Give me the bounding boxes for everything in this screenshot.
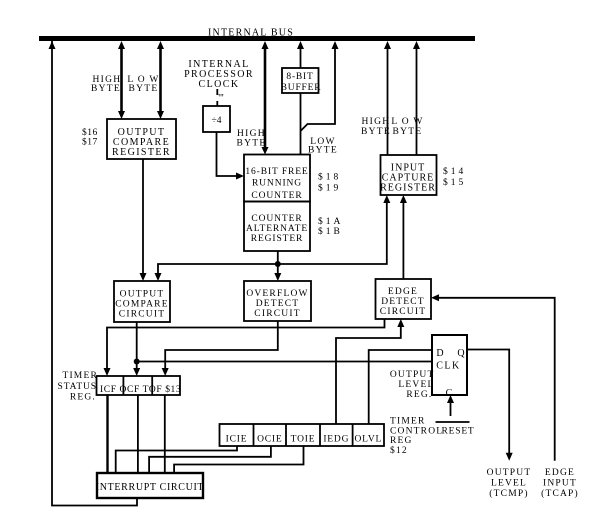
svg-text:REG.: REG. xyxy=(70,393,96,403)
wire: clock to divide-by-4 xyxy=(216,89,218,95)
wire: divide-by-4 to counter xyxy=(217,132,241,176)
svg-text:BYTE: BYTE xyxy=(361,127,391,137)
svg-text:BUFFER: BUFFER xyxy=(281,83,322,93)
svg-text:LEVEL: LEVEL xyxy=(398,380,434,390)
timer status register box xyxy=(97,376,181,395)
svg-text:OVERFLOW: OVERFLOW xyxy=(246,289,308,299)
svg-text:REG: REG xyxy=(390,436,413,446)
svg-text:CIRCUIT: CIRCUIT xyxy=(254,309,300,319)
svg-text:$17: $17 xyxy=(82,137,98,148)
svg-text:DETECT: DETECT xyxy=(256,299,300,309)
svg-text:OUTPUT: OUTPUT xyxy=(390,370,435,380)
svg-text:CIRCUIT: CIRCUIT xyxy=(119,310,165,320)
svg-text:COUNTER: COUNTER xyxy=(251,191,302,201)
svg-text:REGISTER: REGISTER xyxy=(380,183,436,194)
node: OCF junction xyxy=(134,359,140,365)
svg-text:OUTPUT: OUTPUT xyxy=(120,290,165,300)
interrupt circuit box xyxy=(97,473,203,498)
svg-text:$18: $18 xyxy=(318,172,341,183)
wire: junction to output compare circuit xyxy=(158,264,278,277)
svg-text:LEVEL: LEVEL xyxy=(491,479,527,489)
svg-text:CLK: CLK xyxy=(436,361,461,372)
wire: TCAP pin to edge detect circuit xyxy=(435,298,555,461)
svg-text:REGISTER: REGISTER xyxy=(251,234,304,244)
svg-text:L O W: L O W xyxy=(391,117,423,127)
svg-text:$12: $12 xyxy=(390,445,408,456)
svg-text:D: D xyxy=(436,348,443,359)
svg-text:IEDG: IEDG xyxy=(323,435,349,445)
svg-text:(TCAP): (TCAP) xyxy=(541,488,579,499)
svg-text:CLOCK: CLOCK xyxy=(199,79,240,90)
wire: OCF junction to CLK input xyxy=(137,361,432,363)
svg-text:ICF OCF TOF $13: ICF OCF TOF $13 xyxy=(100,384,181,395)
wire: ICF to interrupt circuit xyxy=(106,395,108,473)
output compare circuit box xyxy=(114,281,170,322)
wire: high byte bus to counter (double arrow) xyxy=(264,45,267,150)
svg-text:$1B: $1B xyxy=(318,226,343,237)
svg-text:$14: $14 xyxy=(443,166,466,177)
wire: OCF to interrupt circuit xyxy=(137,395,139,473)
wire: counter to circuits (horizontal with junction) xyxy=(277,251,279,277)
wire: IEDG to edge detect circuit xyxy=(336,323,401,424)
svg-text:RUNNING: RUNNING xyxy=(252,179,302,189)
wire: ICIE to interrupt circuit xyxy=(116,446,237,473)
wire: low byte bus to output compare register xyxy=(159,45,162,115)
svg-text:REGISTER: REGISTER xyxy=(112,147,171,158)
svg-text:(TCMP): (TCMP) xyxy=(489,488,528,499)
internal bus xyxy=(39,36,475,41)
output compare register box xyxy=(107,119,176,159)
wire: TOIE to interrupt circuit xyxy=(174,446,303,473)
svg-text:$16: $16 xyxy=(82,127,98,138)
wire: OCIE to interrupt circuit xyxy=(149,446,271,473)
svg-text:STATUS: STATUS xyxy=(58,382,97,392)
wire: input capture register to bus (high) xyxy=(387,45,389,155)
svg-text:EDGE: EDGE xyxy=(545,468,575,478)
output level register flip-flop box xyxy=(432,335,467,395)
16-bit free running counter box xyxy=(244,155,310,202)
input capture register box xyxy=(381,155,437,195)
svg-text:BYTE: BYTE xyxy=(392,127,422,137)
timer control register box xyxy=(220,424,385,446)
svg-text:BYTE: BYTE xyxy=(308,146,338,156)
svg-text:''': ''' xyxy=(218,93,224,104)
svg-text:OUTPUT: OUTPUT xyxy=(487,468,532,478)
svg-text:HIGH: HIGH xyxy=(237,129,266,139)
wire: bus to buffer xyxy=(300,45,302,68)
svg-text:Q: Q xyxy=(457,348,465,359)
svg-text:INTERRUPT CIRCUIT: INTERRUPT CIRCUIT xyxy=(96,482,204,493)
wire: reset to C input xyxy=(450,399,452,416)
svg-text:TIMER: TIMER xyxy=(62,371,98,381)
wire: edge detect to input capture register xyxy=(402,199,404,279)
svg-text:RESET: RESET xyxy=(442,427,475,437)
counter alternate register box xyxy=(244,202,310,252)
svg-text:INTERNAL BUS: INTERNAL BUS xyxy=(208,28,294,39)
svg-text:REG.: REG. xyxy=(406,390,432,400)
svg-text:DETECT: DETECT xyxy=(381,297,425,307)
overflow detect circuit box xyxy=(244,281,311,321)
svg-text:ALTERNATE: ALTERNATE xyxy=(246,224,308,234)
wire: left feedback line from interrupt circuit to bus xyxy=(52,41,137,506)
wire: overflow detect to TOF flag xyxy=(165,321,278,372)
svg-text:COUNTER: COUNTER xyxy=(251,214,302,224)
svg-text:$19: $19 xyxy=(318,183,341,194)
svg-text:8-BIT: 8-BIT xyxy=(286,72,313,82)
wire: edge detect to ICF flag xyxy=(107,319,385,372)
svg-text:BYTE: BYTE xyxy=(128,84,158,94)
wire: TOF to interrupt circuit xyxy=(164,395,166,473)
8-bit buffer box xyxy=(282,68,319,93)
wire: buffer to counter low byte xyxy=(300,93,302,155)
wire: Q output to TCMP pin xyxy=(467,350,509,457)
divide-by-4 box xyxy=(203,106,230,132)
svg-text:16-BIT FREE: 16-BIT FREE xyxy=(245,167,308,177)
wire: bus low byte to buffer output (with jog) xyxy=(301,45,336,131)
svg-text:$15: $15 xyxy=(443,177,466,188)
svg-text:ICIE: ICIE xyxy=(226,435,248,445)
svg-text:CONTROL: CONTROL xyxy=(390,427,443,437)
svg-text:BYTE: BYTE xyxy=(91,84,121,94)
svg-text:HIGH: HIGH xyxy=(362,117,391,127)
svg-text:TIMER: TIMER xyxy=(390,417,426,427)
wire: output compare register to output compare circuit xyxy=(142,159,144,277)
svg-text:OLVL: OLVL xyxy=(354,435,382,445)
svg-text:OCIE: OCIE xyxy=(257,435,282,445)
wire: junction to input capture register xyxy=(278,199,387,264)
edge detect circuit box xyxy=(376,279,432,319)
wire: high byte bus to output compare register xyxy=(120,45,123,115)
svg-text:÷4: ÷4 xyxy=(212,116,222,126)
node: counter junction xyxy=(275,261,281,267)
wire: output compare circuit to OCF flag and clock of output level reg xyxy=(136,322,138,372)
svg-text:EDGE: EDGE xyxy=(388,287,418,297)
svg-text:COMPARE: COMPARE xyxy=(115,300,168,310)
svg-text:C: C xyxy=(446,388,453,399)
svg-text:TOIE: TOIE xyxy=(291,435,316,445)
svg-text:INPUT: INPUT xyxy=(543,479,577,489)
wire: input capture register to bus (low) xyxy=(416,45,418,155)
svg-text:CIRCUIT: CIRCUIT xyxy=(380,307,426,317)
label RESET with overline xyxy=(436,421,470,423)
svg-text:$1A: $1A xyxy=(318,216,343,227)
wire: OLVL to D input xyxy=(369,350,432,424)
